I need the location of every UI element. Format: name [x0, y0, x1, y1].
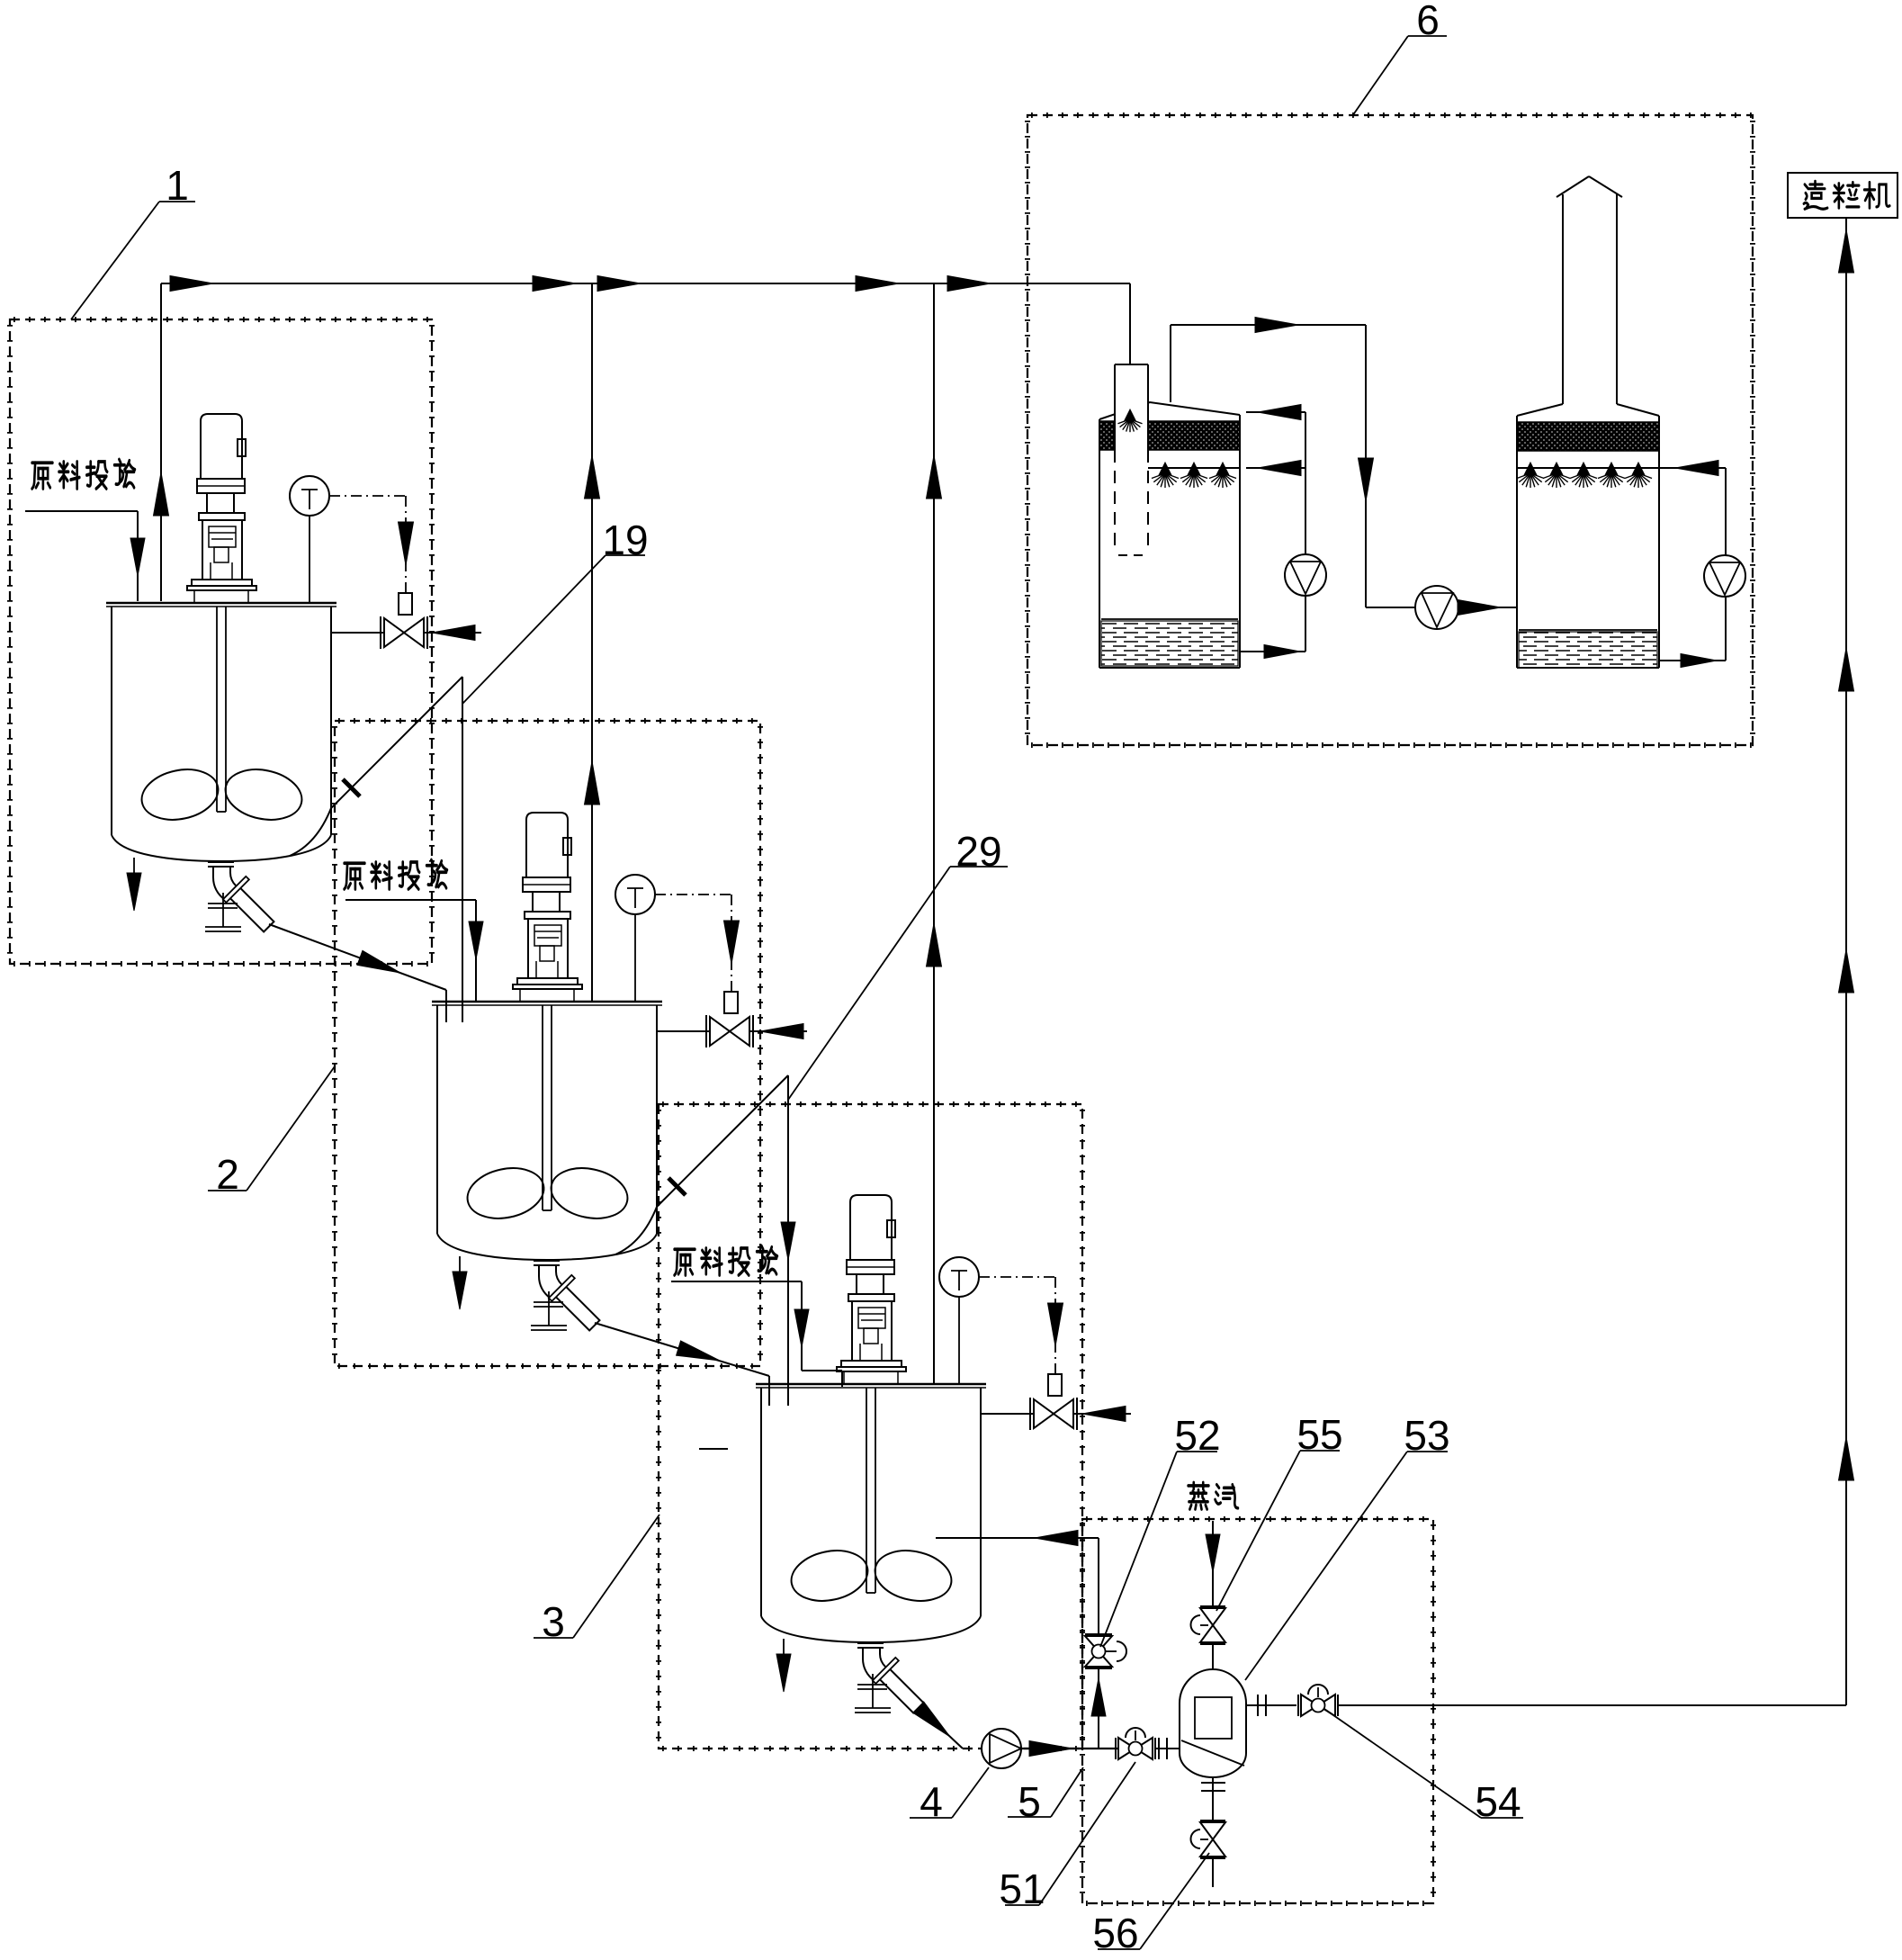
transfer line from left scrubber top to middle pump — [1171, 318, 1415, 608]
label 6 with leader — [1352, 0, 1447, 116]
tank body of unit 3 — [756, 1384, 986, 1642]
left recirculation pump — [1285, 554, 1326, 596]
product pipe riser to granulator — [1839, 218, 1854, 1705]
agitator shaft of unit 1 — [217, 607, 226, 812]
flanges on ejector outlet — [1246, 1695, 1296, 1716]
product pipe from valve 54 to granulator riser — [1338, 1704, 1846, 1706]
pump 4 discharge pipe to valve 51 — [1021, 1741, 1119, 1757]
valve positioner body on tank 1 side valve — [399, 593, 412, 615]
gearbox and stand of motor M2 — [513, 877, 582, 1002]
right recirculation pump — [1704, 555, 1745, 597]
feed label 原料投放 of unit 1 — [25, 460, 145, 602]
dashed box 2 : second premix unit boundary — [335, 721, 760, 1366]
propeller blades of unit 1 — [137, 763, 306, 827]
label 53 with leader — [1245, 1412, 1450, 1680]
outlet support stand of tank 1 — [205, 893, 241, 931]
label 2 with leader — [208, 1066, 335, 1198]
label 54 with leader — [1324, 1709, 1523, 1825]
spray header inside left scrubber — [1148, 467, 1240, 469]
label 29 with leader — [788, 828, 1008, 1100]
drain line with arrow under tank 1 — [127, 858, 141, 911]
label 3 with leader — [534, 1515, 659, 1645]
middle transfer pump — [1415, 586, 1458, 629]
spray header inside right scrubber — [1517, 467, 1659, 469]
side transfer pipe (29) from tank 2 to tank 3 — [615, 1075, 795, 1406]
label 4 with leader — [910, 1767, 989, 1825]
spray nozzle inside inner tube mouth — [1117, 409, 1142, 432]
tank body of unit 2 — [432, 1002, 662, 1260]
inlet arrow into tank 1 side valve — [432, 625, 475, 641]
agitator shaft of unit 3 — [866, 1388, 875, 1593]
label 1 with leader — [71, 162, 195, 319]
gearbox and stand of motor M3 — [837, 1260, 906, 1384]
agitator shaft of unit 2 — [543, 1005, 552, 1210]
pump 4 (transfer pump) — [982, 1729, 1021, 1768]
label 19 with leader — [462, 517, 649, 704]
motor M3 (agitator drive) — [850, 1195, 895, 1260]
bottom transfer pipe from tank 1 to tank 2 — [269, 924, 446, 1022]
bottom transfer pipe from tank 2 to tank 3 — [595, 1323, 769, 1406]
valve positioner body on tank 2 side valve — [724, 992, 738, 1013]
steam ejector vessel 53 — [1180, 1669, 1246, 1777]
return pipe from valve 52 into tank 3 — [936, 1531, 1106, 1749]
svg-text:5: 5 — [1018, 1778, 1041, 1825]
inner gas inlet tube of left scrubber — [1115, 364, 1148, 555]
tank body of unit 1 — [106, 603, 336, 861]
right scrubber column body — [1517, 404, 1659, 668]
left scrubber liquid sump — [1101, 619, 1238, 666]
inlet arrow into tank 2 side valve — [760, 1024, 803, 1039]
dashed box 5 : steam ejector unit boundary — [1082, 1519, 1433, 1903]
left scrubber demister packing (hatched) — [1099, 421, 1240, 450]
steam inlet line — [1206, 1521, 1220, 1606]
discharge elbow and angled valve of tank 2 — [539, 1265, 599, 1330]
discharge elbow and angled valve of tank 1 — [213, 867, 274, 931]
svg-text:29: 29 — [955, 828, 1001, 875]
propeller blades of unit 2 — [462, 1162, 632, 1226]
feed label 原料投放 of unit 3 — [671, 1246, 842, 1388]
dashed box 6 : gas scrubbing unit boundary — [1027, 115, 1753, 745]
label 55 with leader — [1216, 1411, 1343, 1611]
right scrubber liquid sump — [1519, 630, 1657, 668]
main gas header pipe — [161, 276, 1130, 292]
gas pipe drop into left scrubber inner tube — [1129, 283, 1131, 364]
drain flanges under ejector 53 — [1201, 1777, 1225, 1821]
inlet arrow into tank 3 side valve — [1082, 1407, 1126, 1422]
control signal line from TI2 to valve — [655, 895, 740, 992]
left scrubber column body — [1099, 402, 1240, 668]
side inlet valve of tank 2 — [657, 1015, 807, 1047]
side inlet valve of tank 1 — [331, 616, 481, 649]
dashed box 1 : first premix unit boundary — [10, 319, 432, 964]
recirculation spray feed lines into left scrubber — [1246, 405, 1305, 476]
motor M1 (agitator drive) — [201, 414, 246, 479]
gearbox and stand of motor M1 — [187, 479, 256, 603]
flanges between valve 51 and vessel 53 — [1155, 1738, 1180, 1759]
thermometer TI3 — [939, 1257, 979, 1384]
label 52 with leader — [1100, 1412, 1221, 1647]
valve 55 (steam valve) — [1191, 1606, 1226, 1644]
dashed box 3 : third mixing unit boundary — [659, 1104, 1082, 1749]
spray nozzles of left scrubber — [1152, 463, 1236, 488]
short level mark inside box 3 — [699, 1448, 728, 1450]
pipe valve 55 to ejector 53 — [1212, 1644, 1214, 1672]
thermometer TI2 — [615, 875, 655, 1002]
discharge pipe from tank 3 to pump 4 — [913, 1702, 963, 1749]
valve 54 (product ball valve) — [1298, 1685, 1338, 1716]
steam label 蒸汽 — [1189, 1482, 1209, 1509]
valve 51 (feed ball valve) — [1116, 1728, 1155, 1759]
motor M2 (agitator drive) — [526, 813, 571, 877]
propeller blades of unit 3 — [786, 1544, 955, 1608]
thermometer TI1 — [290, 476, 329, 603]
spray nozzles of right scrubber — [1517, 463, 1652, 488]
bottom outlet flange of tank 1 — [208, 862, 234, 867]
right scrubber spray feed line — [1659, 461, 1726, 476]
gas riser from tank 2 — [585, 283, 600, 1001]
control signal line from TI3 to valve — [979, 1277, 1063, 1374]
outlet support stand of tank 2 — [531, 1291, 567, 1330]
valve 52 (recycle valve) — [1085, 1634, 1126, 1668]
pipe from middle pump into right scrubber — [1458, 600, 1517, 616]
label 56 with leader — [1092, 1853, 1209, 1956]
label 5 with leader — [1008, 1767, 1083, 1825]
right scrubber recirculation loop pipe — [1659, 468, 1726, 668]
side transfer pipe (19) from tank 1 to tank 2 — [290, 677, 462, 1022]
drain line with arrow under tank 3 — [776, 1639, 791, 1692]
right scrubber exhaust chimney — [1557, 176, 1622, 404]
left scrubber recirculation loop pipe — [1240, 412, 1305, 659]
control signal line from TI1 to valve — [329, 496, 414, 593]
valve positioner body on tank 3 side valve — [1048, 1374, 1062, 1396]
side inlet valve of tank 3 — [981, 1398, 1131, 1430]
feed label 原料投放 of unit 2 — [345, 860, 483, 1002]
bottom outlet flange of tank 3 — [857, 1643, 884, 1648]
svg-text:19: 19 — [602, 517, 648, 563]
bottom outlet flange of tank 2 — [534, 1261, 560, 1265]
valve 56 (drain valve) — [1191, 1821, 1226, 1887]
right scrubber demister packing (hatched) — [1517, 422, 1659, 451]
outlet support stand of tank 3 — [855, 1674, 891, 1713]
discharge elbow and angled valve of tank 3 — [863, 1648, 923, 1713]
gas riser from tank 1 — [154, 283, 169, 601]
granulator box 造粒机 — [1788, 173, 1898, 218]
gas riser from tank 3 — [927, 283, 942, 1384]
label 51 with leader — [999, 1762, 1135, 1912]
drain line with arrow under tank 2 — [453, 1256, 467, 1309]
